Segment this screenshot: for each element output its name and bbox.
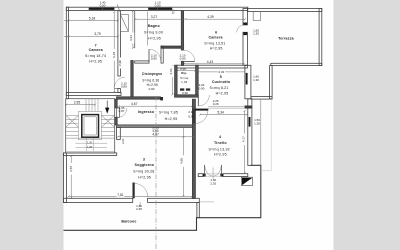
door soggiorno-balcone arc	[135, 184, 148, 198]
wall: bagno left	[134, 11, 136, 49]
svg-text:0,80: 0,80	[121, 85, 127, 89]
wall: soggiorno north (below stairs)	[63, 153, 116, 156]
svg-text:0,90: 0,90	[199, 86, 205, 90]
tinello north opening sill	[208, 106, 245, 108]
elevator inner	[84, 117, 96, 135]
svg-text:S=mq 8,21: S=mq 8,21	[209, 86, 228, 90]
svg-text:1,04: 1,04	[181, 80, 188, 84]
wall: camera7 right lower	[118, 89, 121, 93]
french door arcs	[205, 165, 213, 176]
window W-bagno	[148, 8, 172, 10]
svg-text:0,87: 0,87	[119, 109, 125, 113]
wall: rip left / disimpegno right	[175, 65, 178, 97]
window tinello east	[249, 117, 251, 127]
svg-text:Ingresso: Ingresso	[138, 110, 155, 114]
svg-text:2,95: 2,95	[74, 101, 81, 105]
svg-text:0,90: 0,90	[149, 87, 155, 91]
wall: camera6 left upper	[181, 11, 183, 50]
svg-text:0,33: 0,33	[218, 70, 224, 74]
svg-text:6: 6	[215, 31, 217, 35]
svg-text:2,35: 2,35	[136, 207, 142, 211]
west exterior wall	[66, 7, 68, 99]
wall: camera6 left lower stub	[181, 61, 183, 65]
door disimpegno-bagno arc	[149, 49, 161, 61]
stairwell outer box	[66, 99, 115, 153]
svg-text:4,65: 4,65	[179, 158, 183, 164]
dim 4,39	[186, 18, 246, 20]
dim 3,21 vertical bagno	[132, 11, 134, 48]
svg-text:7: 7	[95, 43, 97, 47]
wall: camera6 right upper	[243, 9, 247, 25]
svg-text:2,61: 2,61	[121, 138, 125, 144]
svg-text:5,34: 5,34	[217, 111, 224, 115]
wall: soggiorno west	[63, 153, 66, 203]
french door leaves	[204, 165, 221, 177]
door camera7-disimpegno arc	[114, 77, 125, 88]
svg-text:S=mq 18,74: S=mq 18,74	[85, 54, 106, 58]
dim 4,67 ingresso	[119, 105, 193, 107]
svg-text:Terrazza: Terrazza	[278, 37, 295, 41]
wall: stub soggiorno NW pillar	[117, 127, 121, 139]
svg-text:2,90: 2,90	[118, 60, 122, 66]
door soggiorno-balcone leaf	[133, 183, 135, 199]
balcone parapet upper extension	[260, 100, 262, 166]
tick soggiorno door	[139, 202, 141, 207]
dim 2,87 vertical soggiorno west	[70, 156, 72, 198]
dim 4,43	[184, 63, 244, 65]
svg-text:H=2,95: H=2,95	[210, 46, 223, 50]
wall: east step below terrazza	[270, 66, 273, 99]
wall: stairs/ingresso	[115, 99, 118, 108]
svg-text:5,18: 5,18	[89, 17, 96, 21]
french door center tick	[212, 168, 214, 179]
svg-text:Soggiorno: Soggiorno	[135, 163, 155, 167]
terrazza parapet top	[247, 8, 321, 11]
dim 7,81 balcone	[68, 196, 192, 198]
french door jambs (black)	[203, 174, 206, 177]
wall: bagno nook bottom	[135, 61, 149, 63]
svg-text:7,81: 7,81	[117, 193, 124, 197]
dim 4,65 vertical soggiorno	[182, 128, 184, 196]
svg-text:4: 4	[219, 135, 221, 139]
svg-text:Camera: Camera	[89, 48, 104, 52]
window W7 camera 7	[89, 8, 115, 10]
dim 5,34 tinello	[200, 114, 246, 116]
wall: cucinotto south-east	[251, 97, 272, 100]
svg-text:0,90: 0,90	[151, 57, 157, 61]
svg-text:0,90: 0,90	[155, 3, 161, 7]
dim 4,17 vertical tinello	[244, 111, 246, 173]
dim vertical disimpegno right	[171, 66, 173, 95]
svg-text:1,30: 1,30	[254, 122, 260, 126]
stairs landing line	[66, 137, 115, 139]
svg-text:Cucinotto: Cucinotto	[212, 80, 231, 84]
svg-text:1,30: 1,30	[87, 142, 92, 145]
white halos under texts	[70, 33, 246, 197]
svg-text:H=2,95: H=2,95	[165, 117, 178, 121]
svg-text:3,79: 3,79	[94, 32, 101, 36]
svg-text:4,17: 4,17	[241, 136, 245, 142]
svg-text:Rip.: Rip.	[181, 71, 187, 75]
wall: camera6 bottom	[177, 65, 247, 68]
svg-text:S=mq 30,28: S=mq 30,28	[133, 170, 154, 174]
wall: top exterior	[66, 7, 248, 10]
dim 5,18	[68, 20, 118, 22]
svg-text:S=mq 6,36: S=mq 6,36	[142, 78, 159, 82]
svg-text:2,10: 2,10	[188, 110, 194, 114]
svg-text:4,43: 4,43	[207, 60, 214, 64]
svg-text:H=2,95: H=2,95	[148, 36, 161, 40]
stair arrow	[106, 101, 108, 109]
dim 3,27	[135, 18, 183, 20]
north-arrow square	[241, 177, 252, 185]
svg-text:1,25: 1,25	[87, 146, 92, 149]
terrazza parapet bottom	[271, 63, 322, 65]
wall: ingresso north left segment	[117, 97, 161, 99]
left wall extension ticks	[64, 21, 69, 37]
shaft with diagonal	[120, 15, 128, 32]
svg-text:H=2,95: H=2,95	[89, 59, 102, 63]
svg-text:H=2,95: H=2,95	[138, 175, 151, 179]
door ingresso-tinello leaf (black bar)	[195, 109, 208, 111]
window jamb bagno right	[172, 10, 174, 13]
svg-text:3,21: 3,21	[129, 35, 133, 41]
svg-text:0,80: 0,80	[180, 57, 186, 61]
wall: soggiorno south left	[63, 198, 132, 202]
door disimpegno-bagno leaf	[148, 49, 150, 61]
svg-text:Disimpegno: Disimpegno	[142, 72, 162, 76]
wall: tinello bottom right piece	[223, 174, 248, 177]
svg-text:Balcone: Balcone	[121, 219, 136, 223]
svg-text:S=mq 7,85: S=mq 7,85	[159, 110, 178, 114]
wall: disimpegno left	[131, 61, 133, 97]
svg-text:Tinello: Tinello	[214, 141, 227, 145]
rotated dim texts	[69, 35, 245, 172]
wall: cucinotto east	[245, 65, 251, 99]
wall: rip right / cucinotto west	[196, 65, 199, 95]
wall: soggiorno SE step	[197, 202, 199, 217]
svg-text:4,67: 4,67	[152, 132, 159, 136]
svg-text:3,27: 3,27	[151, 15, 158, 19]
balcone outline	[64, 165, 261, 230]
wall: ingresso south	[117, 125, 193, 128]
svg-text:0,26: 0,26	[213, 102, 219, 106]
ledge line right of soggiorno	[199, 201, 214, 203]
svg-text:S=mq 13,92: S=mq 13,92	[209, 147, 230, 151]
svg-text:2,00: 2,00	[169, 68, 173, 74]
door entry leaf	[117, 108, 120, 117]
dimension end ticks	[65, 10, 248, 199]
svg-text:Bagno: Bagno	[148, 24, 161, 28]
svg-text:H=2,95: H=2,95	[214, 152, 227, 156]
svg-text:1,30: 1,30	[253, 78, 259, 82]
wall: tinello east	[248, 99, 252, 166]
wall: camera7 right upper	[118, 11, 121, 76]
dim 6,15 vertical camera7	[113, 12, 115, 92]
svg-text:S=mq 9,00: S=mq 9,00	[144, 30, 163, 34]
door ingresso-tinello arc	[195, 111, 208, 124]
svg-text:0,90: 0,90	[100, 3, 106, 7]
svg-text:2,87: 2,87	[69, 166, 73, 172]
svg-text:4,39: 4,39	[207, 15, 214, 19]
svg-text:1,30: 1,30	[253, 32, 259, 36]
svg-text:5: 5	[220, 75, 222, 79]
door camera6-terrazza arc	[237, 25, 244, 32]
svg-text:2,35: 2,35	[210, 181, 216, 185]
wall: camera7 bottom	[66, 93, 121, 96]
window cucinotto east	[246, 73, 248, 85]
door disimpegno-camera6 arc	[184, 50, 195, 61]
elevator outer	[82, 115, 99, 138]
wall: ingresso north right segment (front of rip)	[175, 95, 199, 97]
door camera7-disimpegno sill	[114, 87, 121, 89]
centerline dash-dot	[155, 96, 157, 250]
dim 0,33 cucinotto	[198, 71, 245, 73]
stair steps left flight	[66, 116, 79, 136]
wall: tinello north right piece	[245, 106, 252, 109]
door disimpegno-camera6 leaf	[184, 60, 195, 62]
svg-text:3: 3	[143, 158, 145, 162]
terrazza parapet right	[319, 8, 322, 65]
wall pier right of bagno door	[161, 46, 163, 63]
svg-text:6,15: 6,15	[112, 52, 116, 58]
dim 4,67 soggiorno	[118, 136, 195, 138]
terrazza pillar notch	[253, 12, 260, 21]
svg-text:S=mq 13,51: S=mq 13,51	[204, 41, 225, 45]
wall: camera6 right lower	[243, 32, 247, 65]
svg-text:H=2,95: H=2,95	[216, 91, 229, 95]
french door threshold	[206, 174, 221, 176]
svg-text:0,90: 0,90	[182, 91, 188, 95]
bagno window jamb extension	[146, 12, 148, 46]
door entry arc	[120, 108, 127, 117]
window center ticks	[103, 6, 158, 10]
elevator shaft outline	[78, 111, 101, 139]
stair cross right	[102, 116, 115, 128]
door rip (black marks)	[180, 88, 184, 90]
stairs central newel	[86, 138, 93, 151]
svg-text:4,67: 4,67	[131, 102, 138, 106]
dim 0,96 rip	[177, 70, 195, 72]
stair steps top flight	[86, 99, 98, 112]
wall: tinello bottom left piece	[198, 174, 203, 177]
svg-text:H=2,95: H=2,95	[147, 83, 158, 87]
svg-text:Camera: Camera	[208, 35, 223, 39]
stairs lower landing rect lines	[66, 143, 115, 151]
door camera6-terrazza leafs	[243, 23, 247, 25]
dim 3,79	[68, 35, 118, 37]
svg-text:0,90: 0,90	[188, 114, 194, 118]
balcone side ledge	[261, 99, 271, 171]
stair steps right flight	[101, 116, 114, 136]
stair cross left	[66, 116, 78, 128]
wall pier dark at tinello door	[192, 109, 195, 124]
door cucinotto arc	[198, 95, 209, 106]
dim 2,95 stairs	[66, 104, 95, 106]
wall: soggiorno south right	[148, 198, 200, 202]
door mark ingresso opening	[160, 97, 163, 100]
wall: tinello west	[192, 99, 195, 198]
page background	[64, 0, 334, 250]
wall: bagno bottom right (dark)	[161, 46, 184, 48]
